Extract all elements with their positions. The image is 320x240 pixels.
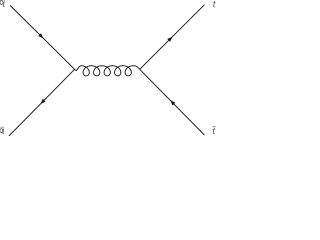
outgoing top quark line t bbox=[140, 5, 205, 70]
label t (top right): crossbar bbox=[213, 2, 216, 4]
label q (top left): stem bbox=[2, 0, 5, 6]
arrow on tbar line bbox=[170, 100, 175, 105]
label tbar (bottom right): stem with foot bbox=[213, 128, 215, 134]
arrow on q line bbox=[38, 33, 43, 38]
label t (top right): stem with foot bbox=[214, 1, 216, 7]
gluon propagator bbox=[75, 66, 140, 76]
arrow on qbar line bbox=[40, 99, 45, 104]
label q (top left): bowl bbox=[0, 0, 3, 4]
label qbar (bottom left): overbar bbox=[0, 126, 4, 129]
arrow on t line bbox=[167, 37, 172, 42]
label tbar (bottom right): crossbar bbox=[212, 128, 215, 130]
outgoing anti-top line tbar bbox=[140, 69, 205, 135]
label tbar (bottom right): overbar bbox=[212, 125, 215, 128]
label qbar (bottom left): bowl bbox=[0, 129, 3, 133]
label qbar (bottom left): stem bbox=[2, 128, 5, 133]
incoming quark line q bbox=[10, 6, 74, 70]
incoming antiquark line qbar bbox=[9, 69, 75, 136]
